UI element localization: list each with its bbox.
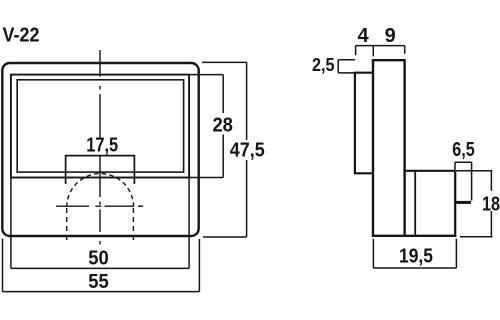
svg-text:28: 28 [212,114,233,136]
svg-text:6,5: 6,5 [452,139,475,161]
svg-text:50: 50 [88,247,109,269]
svg-text:9: 9 [385,25,396,47]
svg-text:V-22: V-22 [3,25,40,47]
svg-text:4: 4 [357,25,369,47]
svg-text:17,5: 17,5 [86,135,118,157]
svg-text:47,5: 47,5 [230,140,265,162]
svg-text:19,5: 19,5 [399,245,433,267]
svg-text:55: 55 [88,271,109,293]
svg-text:2,5: 2,5 [312,55,335,75]
svg-text:18: 18 [482,193,500,215]
